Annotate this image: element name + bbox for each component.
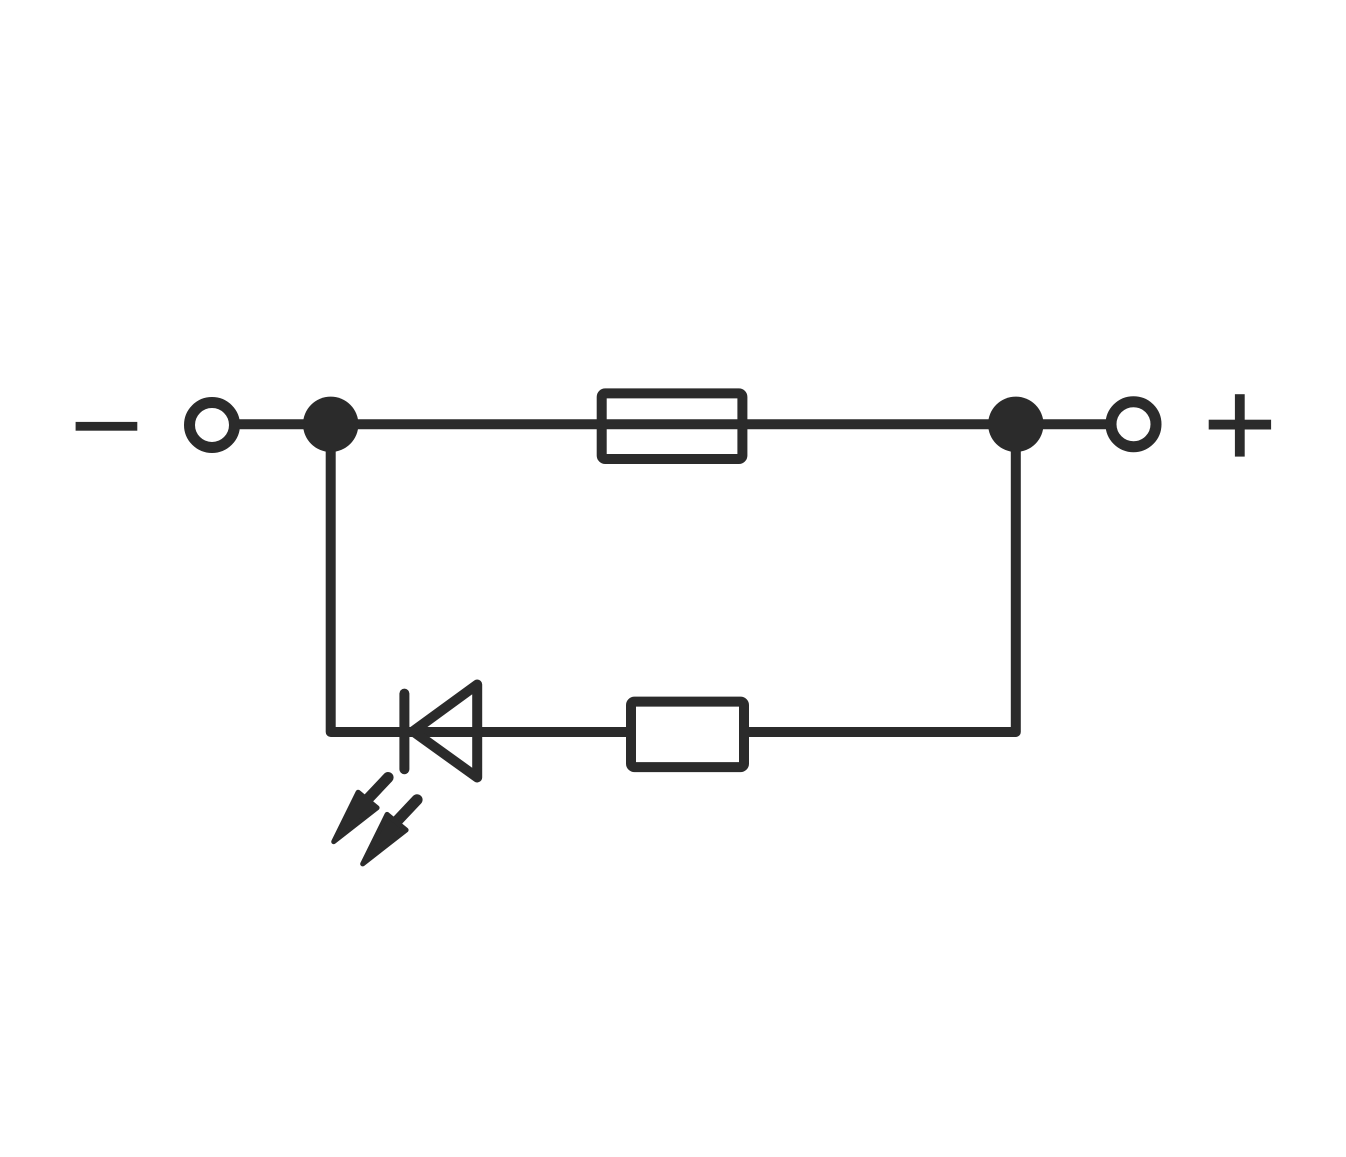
wire (left branch: down from left junction, along bottom to resistor) (331, 424, 629, 732)
fuse F1 (rectangle body) (602, 393, 743, 459)
terminal (left open circle) (190, 403, 235, 448)
LED light arrow 1 (upper) (334, 778, 388, 842)
wire (top rail from left terminal to right terminal, through fuse) (236, 419, 1108, 429)
resistor R1 (rectangle body) (631, 702, 744, 768)
terminal (right open circle) (1111, 402, 1156, 447)
wire (right branch: from resistor along bottom, up to right junction) (746, 424, 1016, 732)
minus label (negative terminal) (76, 422, 138, 431)
LED D1 cathode bar (399, 694, 409, 770)
junction dot (right node) (988, 397, 1043, 452)
LED D1 triangle (anode, pointing left) (413, 685, 477, 778)
plus label (positive terminal) (1209, 394, 1271, 456)
LED light arrow 2 (lower) (363, 800, 417, 864)
junction dot (left node) (303, 397, 358, 452)
